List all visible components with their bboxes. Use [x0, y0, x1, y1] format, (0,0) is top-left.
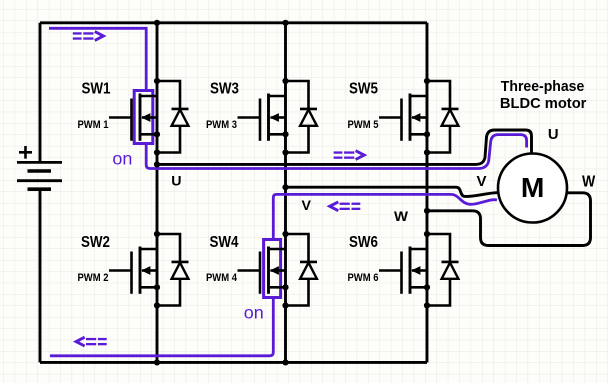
svg-text:W: W: [582, 174, 596, 191]
transistor SW3: [238, 78, 289, 141]
svg-text:BLDC motor: BLDC motor: [500, 96, 587, 112]
freewheel diode of SW5: [424, 81, 459, 156]
freewheel diode of SW1: [154, 81, 189, 156]
svg-text:U: U: [548, 127, 559, 143]
transistor SW2: [109, 231, 160, 294]
battery: [17, 146, 62, 189]
wire: U phase bus to motor: [157, 130, 532, 164]
purple flow: motor V back to SW4: [273, 194, 497, 239]
node W: SW5-SW6 midpoint: [424, 208, 430, 214]
transistor SW6: [379, 231, 430, 294]
svg-text:PWM 1: PWM 1: [78, 119, 109, 131]
transistor SW1: [109, 78, 160, 141]
svg-text:on: on: [112, 149, 132, 169]
svg-text:SW5: SW5: [349, 81, 378, 98]
svg-text:PWM 6: PWM 6: [348, 272, 379, 284]
svg-text:PWM 4: PWM 4: [206, 272, 237, 284]
freewheel diode of SW2: [154, 234, 189, 309]
svg-text:SW3: SW3: [210, 81, 239, 98]
purple flow: SW1 through U bus to motor: [146, 135, 526, 169]
svg-text:PWM 3: PWM 3: [206, 119, 237, 131]
wire: bottom negative rail: [40, 361, 427, 364]
svg-text:PWM 5: PWM 5: [348, 119, 379, 131]
node U: SW1-SW2 midpoint: [154, 161, 160, 167]
svg-text:V: V: [477, 173, 487, 190]
svg-text:SW4: SW4: [210, 234, 239, 251]
wire: top positive rail: [40, 21, 427, 24]
freewheel diode of SW3: [282, 81, 317, 156]
svg-text:Three-phase: Three-phase: [501, 79, 585, 95]
svg-text:V: V: [302, 198, 312, 214]
wire: left rail from battery - to bottom rail: [39, 190, 42, 362]
purple flow arrow top ==>: [73, 32, 104, 41]
purple flow arrow on U bus ==>: [334, 151, 365, 160]
svg-text:U: U: [171, 173, 181, 189]
freewheel diode of SW4: [282, 234, 317, 309]
svg-text:SW1: SW1: [82, 81, 111, 98]
wire: SW1/SW2 column: [156, 23, 159, 363]
wire: left rail from top rail to battery +: [39, 23, 42, 162]
wire: W phase bus to motor (loops under motor): [427, 193, 591, 246]
node V: SW3-SW4 midpoint: [282, 184, 288, 190]
node: top rail / SW1 column junction: [154, 20, 160, 26]
svg-text:M: M: [521, 172, 545, 203]
wire: SW5/SW6 column: [426, 23, 429, 363]
svg-text:SW6: SW6: [349, 234, 378, 251]
node: top rail / SW3 column junction: [282, 20, 288, 26]
freewheel diode of SW6: [424, 234, 459, 309]
node: bottom rail / SW2 column junction: [154, 359, 160, 365]
transistor SW5: [379, 78, 430, 141]
purple flow arrow bottom <==: [76, 337, 107, 346]
wire: V phase bus to motor: [286, 187, 499, 196]
wire: SW3/SW4 column: [284, 23, 287, 363]
purple flow: SW4 to battery - along bottom rail: [50, 298, 273, 356]
motor M: [498, 154, 567, 223]
highlight box around SW1: [134, 91, 153, 144]
svg-text:on: on: [244, 303, 264, 323]
purple flow arrow on V bus <==: [330, 202, 361, 211]
svg-text:SW2: SW2: [81, 234, 110, 251]
highlight box around SW4: [264, 240, 281, 298]
svg-text:W: W: [394, 209, 409, 225]
svg-text:PWM 2: PWM 2: [78, 272, 109, 284]
transistor SW4: [238, 231, 289, 294]
purple flow: battery + to SW1: [49, 28, 146, 90]
node: bottom rail / SW4 column junction: [282, 359, 288, 365]
